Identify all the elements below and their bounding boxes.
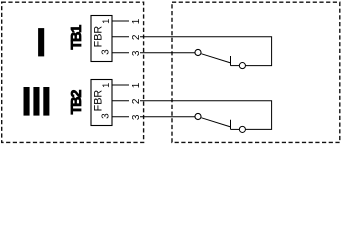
TB1 pin 1 stub wire [112, 20, 129, 22]
wire net 2 bottom: to switch loop [140, 101, 272, 130]
TB1 pin 2 stub wire [112, 36, 129, 38]
svg-text:FBR: FBR [93, 26, 105, 48]
TB2 pin 1 stub wire [112, 84, 129, 86]
TB2 pin 3 stub wire [112, 116, 129, 118]
svg-text:3: 3 [100, 49, 111, 55]
svg-text:FBR: FBR [93, 90, 105, 112]
svg-text:1: 1 [131, 82, 142, 88]
TB1 pin 3 stub wire [112, 52, 129, 54]
three-phase bar marker [24, 87, 50, 116]
switch S2 contact tick [230, 120, 232, 130]
switch S1 tick-to-contact wire [231, 65, 240, 67]
wire net 3 top: to switch common [140, 52, 195, 54]
switch S1 contact tick [230, 56, 232, 66]
right enclosure dashed border [172, 2, 340, 142]
TB2 pin 2 stub wire [112, 100, 129, 102]
wire net 3 bottom: to switch common [140, 116, 195, 118]
wire net 2 top: to switch loop [140, 37, 272, 66]
terminal block TB1 box FBR [91, 16, 112, 62]
switch S2 right contact circle [239, 126, 245, 132]
switch S2 blade [202, 118, 231, 127]
svg-text:TB1: TB1 [69, 25, 85, 50]
switch S1 left contact circle [195, 49, 201, 55]
switch S2 left contact circle [195, 113, 201, 119]
terminal block TB2 box FBR [91, 80, 112, 126]
svg-text:1: 1 [101, 19, 111, 24]
svg-text:TB2: TB2 [69, 90, 85, 115]
left enclosure dashed border [2, 2, 144, 142]
switch S1 blade [202, 54, 231, 63]
svg-text:3: 3 [100, 113, 111, 119]
switch S2 tick-to-contact wire [231, 128, 240, 130]
single-phase bar marker [38, 28, 44, 56]
svg-text:1: 1 [101, 83, 111, 88]
svg-text:1: 1 [131, 18, 142, 24]
switch S1 right contact circle [239, 63, 245, 69]
